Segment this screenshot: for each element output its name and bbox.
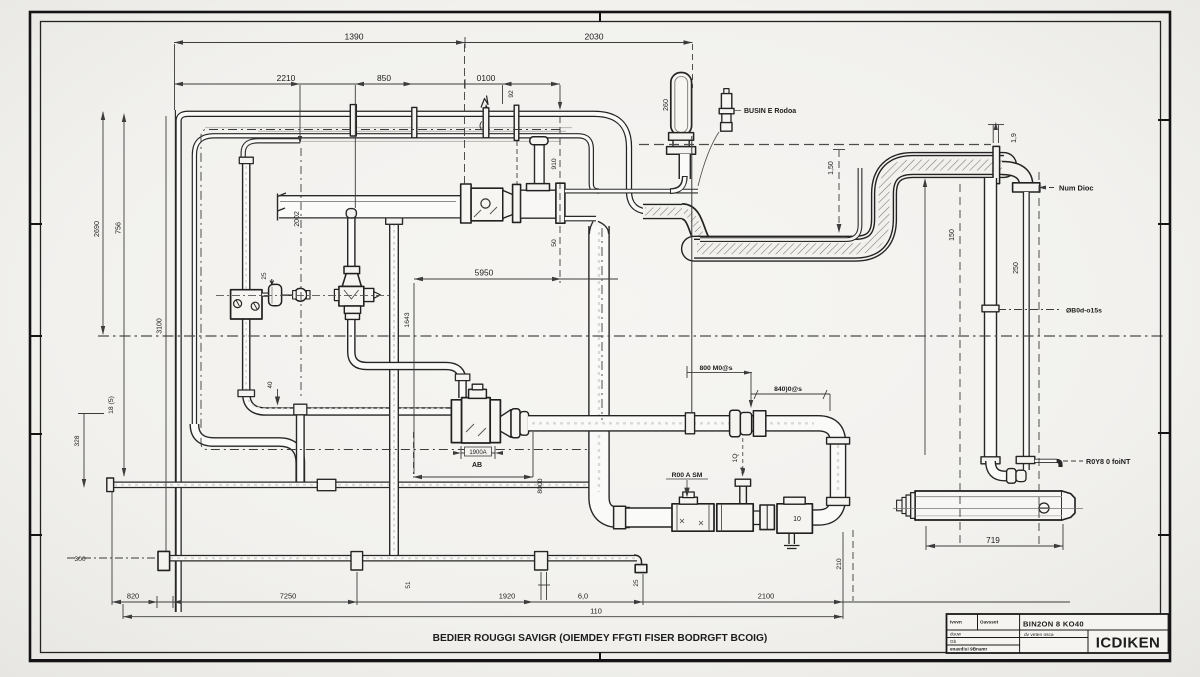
dimension D13 bottom row2	[123, 604, 843, 619]
dimension D4 y477	[413, 432, 533, 479]
wall outline left vertical	[174, 110, 176, 612]
bottom long pipe H	[168, 555, 637, 562]
svg-text:BUSIN E Rodoa: BUSIN E Rodoa	[744, 108, 796, 115]
pipe H collars	[351, 552, 363, 570]
leader royal point	[1063, 460, 1083, 462]
pipe P2/B upper loop (inner)	[194, 136, 599, 428]
pump block 3 hat	[784, 497, 805, 504]
svg-text:2100: 2100	[758, 592, 774, 601]
dimension D3 5950	[414, 277, 618, 474]
svg-text:2030: 2030	[584, 32, 603, 42]
svg-text:10: 10	[793, 516, 801, 523]
capsule thermowell	[671, 73, 692, 136]
svg-text:Ivvvn: Ivvvn	[950, 620, 962, 625]
pipe G collar	[614, 506, 626, 529]
thick pipe end elbow down	[1002, 168, 1026, 186]
stub pipe under pipe band	[534, 144, 545, 184]
svg-text:3100: 3100	[157, 318, 164, 334]
centerline of W2	[601, 228, 603, 420]
svg-text:250: 250	[1013, 262, 1020, 274]
wide pipe W1 with right elbow down	[528, 423, 838, 517]
svg-text:Num Dioc: Num Dioc	[1059, 184, 1094, 193]
thick insulated pipe upper short run	[643, 204, 684, 219]
centerline x960	[959, 184, 961, 546]
mid control valve M1	[334, 266, 380, 319]
svg-text:300: 300	[74, 556, 86, 563]
svg-text:2002: 2002	[294, 211, 301, 227]
leader roo arrow	[666, 478, 708, 480]
pipe A top loop (outer)	[179, 114, 658, 612]
svg-text:enavd!s! 9Bnamr: enavd!s! 9Bnamr	[950, 647, 987, 652]
R2 side stub	[1035, 461, 1061, 467]
V2 collar above big valve	[455, 374, 469, 381]
tank centerline	[893, 508, 1083, 510]
leader 210 dashed	[852, 530, 854, 601]
R2 bottom collar	[1016, 456, 1035, 463]
coupling flange between blocks	[760, 505, 774, 530]
left vertical dims 2690 / 756	[101, 111, 126, 477]
pump block 2	[717, 504, 753, 531]
small dim 40 tick	[276, 389, 280, 404]
svg-text:328: 328	[74, 435, 81, 446]
svg-text:BIN2ON 8 KO40: BIN2ON 8 KO40	[1023, 620, 1084, 629]
vertical dim x925	[923, 178, 927, 455]
wide feed pipe into top valve unit	[279, 202, 461, 207]
valve riser V1 with elbow to pipe D	[246, 161, 452, 412]
end flange of thick pipe	[1013, 183, 1040, 192]
svg-text:ØB0d-o15s: ØB0d-o15s	[1066, 308, 1102, 315]
thick insulated pipe main run and risers	[692, 165, 1006, 249]
svg-text:840)0@s: 840)0@s	[774, 386, 802, 393]
svg-text:25: 25	[633, 579, 640, 587]
T1 body	[471, 188, 503, 221]
T1 body 2	[521, 190, 556, 218]
R1 collar mid	[982, 305, 999, 312]
svg-text:5950: 5950	[475, 268, 494, 278]
V2 top cap	[346, 209, 356, 218]
svg-text:Oavssot: Oavssot	[980, 620, 999, 625]
tank left rings	[911, 493, 915, 519]
BV outlet reducer	[500, 410, 511, 438]
collar on V3	[386, 217, 403, 224]
svg-text:R0Y8 0 foiNT: R0Y8 0 foiNT	[1086, 457, 1131, 466]
riser V3 (mid)	[389, 203, 399, 556]
W1 collar	[685, 413, 694, 434]
pipe C collar	[317, 479, 336, 490]
flange bars on pipe A run	[350, 105, 356, 136]
right riser R1	[984, 178, 997, 460]
leader 150 dashed	[833, 150, 845, 234]
pipe E from P2 down-elbow	[194, 424, 300, 482]
valve riser V2 with elbow toward big valve	[351, 215, 462, 398]
outlet pipe 2 to wide drop W2	[565, 216, 596, 222]
bent centerline along P2 loop	[201, 130, 588, 450]
pump block 1	[672, 504, 714, 531]
tee drop from pipe D to pipe C	[296, 414, 305, 483]
centerline 0250	[998, 309, 1062, 311]
svg-text:756: 756	[114, 222, 123, 234]
pipe C end cap	[107, 478, 114, 492]
BV bell coupling	[511, 409, 520, 438]
dimension D12 bottom row1	[112, 492, 1070, 619]
svg-text:110: 110	[590, 607, 602, 616]
L1 side actuator	[262, 279, 310, 306]
svg-text:dv veten osca: dv veten osca	[1024, 632, 1054, 638]
svg-text:92: 92	[508, 90, 515, 98]
top valve unit T1: left flange	[461, 184, 471, 223]
dimension D7 840	[751, 390, 830, 411]
capsule flange stack	[669, 133, 694, 141]
centerline vertical x465	[464, 44, 466, 188]
left control valve block L1	[231, 290, 262, 319]
W2 top bell	[589, 221, 608, 234]
svg-text:1,9: 1,9	[1011, 133, 1018, 143]
svg-text:910: 910	[551, 158, 558, 170]
leader 800 with arrow	[687, 366, 753, 408]
flange bar on thick top run	[993, 146, 1000, 183]
dimension D5 1900 bracket	[453, 446, 503, 459]
svg-text:800 M0@s: 800 M0@s	[699, 365, 732, 372]
outlet pipe to capsule riser	[565, 189, 698, 194]
small fitting (busin)	[719, 89, 734, 132]
dashed x413 lower	[413, 432, 415, 474]
tank	[915, 491, 1075, 520]
centerline x1039	[1038, 172, 1040, 546]
capsule neck riser	[670, 154, 685, 191]
reducer mark at left end of wide feed pipe	[278, 193, 287, 221]
svg-text:850: 850	[377, 73, 391, 83]
svg-text:1920: 1920	[499, 592, 515, 601]
horizontal centerline y144.5	[639, 144, 991, 146]
lever symbol on pipe A flange	[481, 96, 488, 108]
elbow coupling bulge	[1007, 469, 1016, 484]
T1 mid flange	[513, 184, 521, 222]
big valve BV on line D	[451, 384, 500, 443]
vertical dim 328	[78, 413, 104, 488]
W1 coupling group	[730, 410, 741, 437]
svg-text:6,0: 6,0	[578, 592, 588, 601]
svg-text:8000: 8000	[537, 478, 544, 493]
right riser R2	[1023, 192, 1030, 470]
pipe band light inner lines	[205, 128, 572, 142]
svg-text:0100: 0100	[477, 73, 496, 83]
svg-text:40: 40	[267, 381, 274, 388]
dimension D1 top	[174, 37, 693, 413]
svg-text:duuw: duuw	[950, 632, 962, 637]
stub cap	[530, 137, 548, 145]
R1 bottom collar	[981, 457, 1000, 464]
centerline vertical x517	[516, 141, 518, 184]
lower pump line: pipe G	[626, 507, 676, 527]
dimension D10 719	[926, 524, 1063, 550]
centerline vertical x560	[559, 116, 561, 283]
svg-text:1,50: 1,50	[828, 161, 835, 175]
wide drop pipe W2	[599, 226, 630, 518]
svg-text:AB: AB	[472, 462, 482, 469]
svg-text:1643: 1643	[404, 312, 411, 327]
stub square flange	[527, 184, 550, 191]
pump block 2 stem	[735, 479, 750, 504]
pipe H end cap left	[158, 551, 170, 570]
leader 300 dash	[67, 557, 157, 559]
svg-text:R00 A SM: R00 A SM	[672, 472, 703, 479]
svg-text:50: 50	[551, 239, 558, 247]
svg-text:25: 25	[261, 272, 268, 280]
T1 reducer	[503, 190, 513, 218]
svg-text:BEDIER ROUGGI SAVIGR (OIEMDEY: BEDIER ROUGGI SAVIGR (OIEMDEY FFGTI FISE…	[433, 633, 768, 644]
svg-text:260: 260	[661, 99, 670, 111]
svg-text:51: 51	[405, 581, 412, 589]
svg-text:7250: 7250	[280, 592, 296, 601]
leader Num lbloc	[1038, 186, 1056, 190]
pump block 3	[777, 504, 812, 533]
svg-text:ICDIKEN: ICDIKEN	[1096, 635, 1160, 652]
svg-text:18 (5): 18 (5)	[108, 396, 115, 414]
dimension D2 second row	[174, 79, 562, 208]
svg-text:2690: 2690	[92, 221, 101, 237]
R1 elbow to R2	[991, 461, 1023, 476]
vertical extension x166	[165, 116, 167, 551]
svg-text:1390: 1390	[344, 32, 363, 42]
svg-text:1Q: 1Q	[732, 453, 739, 462]
T1 right flange	[556, 183, 565, 223]
bracket 1,9 top right	[988, 122, 1004, 143]
title block small texts	[950, 620, 999, 652]
collar on V1 at elbow	[238, 390, 255, 397]
svg-text:2210: 2210	[277, 73, 296, 83]
title block frame	[947, 614, 1169, 653]
leader busin	[698, 111, 741, 187]
svg-text:Gb: Gb	[950, 639, 957, 644]
pipe C horizontal	[112, 481, 590, 488]
pump block 1 stub	[679, 497, 697, 504]
svg-text:719: 719	[986, 536, 1000, 545]
collar on V1 top	[239, 157, 253, 163]
thin inner pipe N	[700, 168, 860, 240]
svg-text:210: 210	[836, 558, 843, 570]
W1 riser collars	[827, 437, 850, 444]
pipe H right end elbow cap	[634, 555, 642, 566]
actuator axis centerline	[216, 294, 390, 296]
svg-text:150: 150	[949, 229, 956, 241]
svg-text:1900A: 1900A	[469, 450, 486, 456]
svg-text:820: 820	[127, 592, 139, 601]
thick pipe S transition	[682, 212, 713, 249]
pipe P3 elbow	[243, 141, 300, 161]
pump block 3 drain	[784, 533, 800, 548]
main horizontal centerline y336	[98, 335, 1163, 337]
centerline vertical x301	[300, 148, 302, 398]
collar on pipe D tee	[294, 404, 307, 415]
